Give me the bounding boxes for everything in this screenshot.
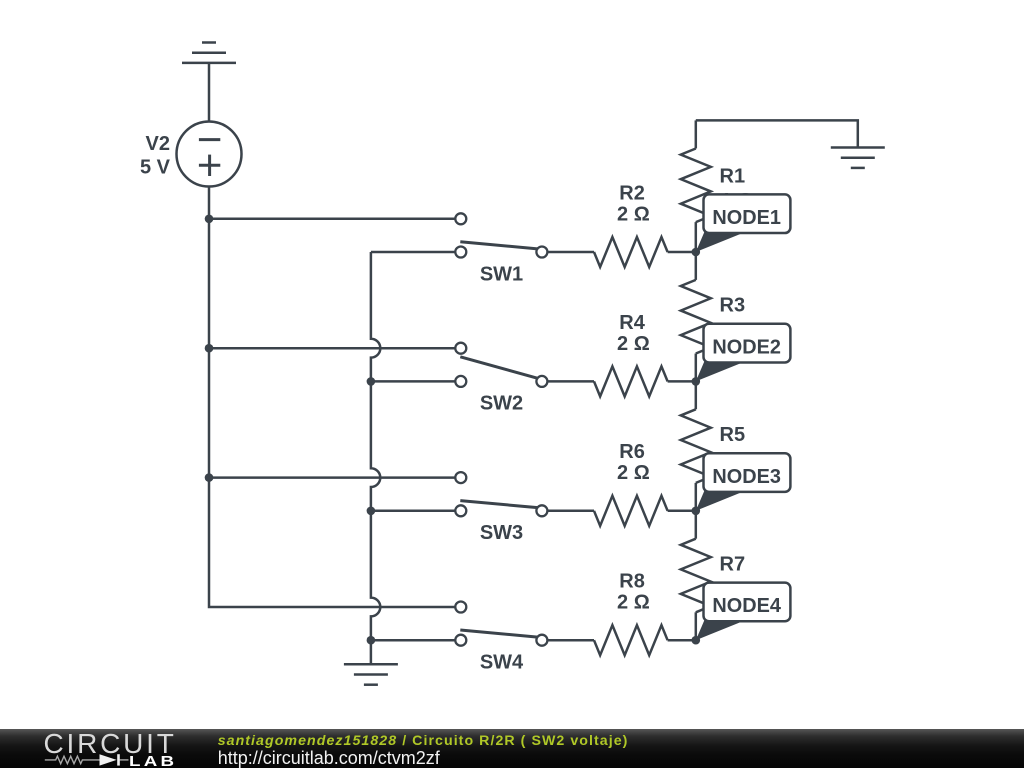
svg-text:NODE4: NODE4 xyxy=(712,595,781,617)
svg-text:R3: R3 xyxy=(720,295,746,317)
svg-text:R8: R8 xyxy=(619,571,645,593)
svg-text:R1: R1 xyxy=(720,165,746,187)
svg-text:SW1: SW1 xyxy=(480,263,523,285)
svg-text:2 Ω: 2 Ω xyxy=(617,592,650,614)
svg-text:R7: R7 xyxy=(720,554,746,576)
svg-text:R5: R5 xyxy=(720,424,746,446)
svg-text:2 Ω: 2 Ω xyxy=(617,462,650,484)
svg-text:V2: V2 xyxy=(146,133,170,155)
svg-text:2 Ω: 2 Ω xyxy=(617,333,650,355)
svg-text:5 V: 5 V xyxy=(140,156,171,178)
svg-text:NODE1: NODE1 xyxy=(712,207,781,229)
svg-text:2 Ω: 2 Ω xyxy=(617,203,650,225)
svg-text:R2: R2 xyxy=(619,182,645,204)
svg-text:R4: R4 xyxy=(619,312,645,334)
svg-text:SW2: SW2 xyxy=(480,393,523,415)
svg-text:NODE3: NODE3 xyxy=(712,466,781,488)
svg-text:SW4: SW4 xyxy=(480,652,524,674)
svg-text:R6: R6 xyxy=(619,441,645,463)
svg-text:SW3: SW3 xyxy=(480,522,523,544)
svg-text:NODE2: NODE2 xyxy=(712,336,781,358)
